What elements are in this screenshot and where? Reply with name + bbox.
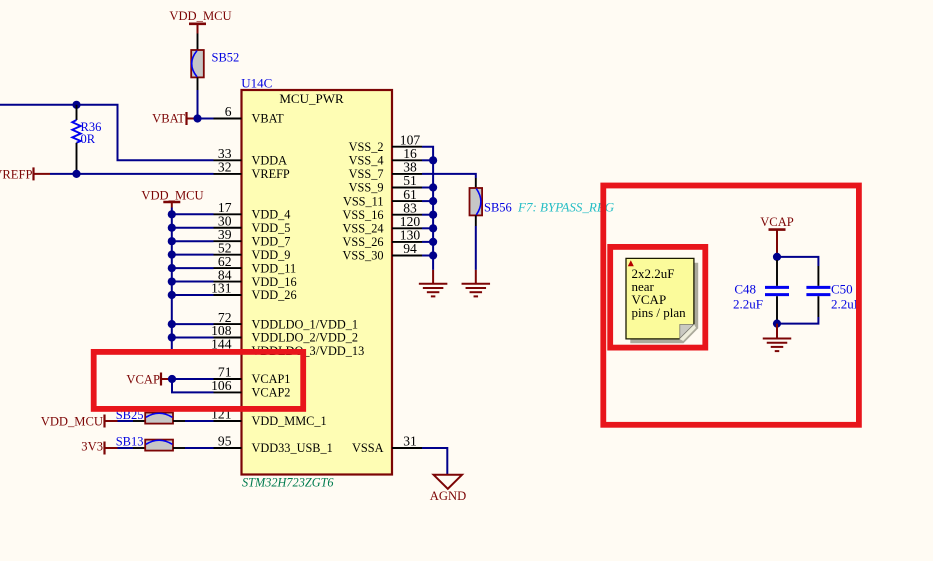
power flag VDD_MCU (top): [169, 9, 231, 34]
wire VSS_16 to bus: [422, 214, 433, 216]
note marker triangle: [628, 260, 634, 266]
svg-text:VSS_30: VSS_30: [342, 249, 383, 263]
pin VREFP (32): [214, 160, 290, 182]
node VREFP/R36 junction: [72, 170, 80, 178]
solder bridge SB56: [470, 178, 483, 226]
node VCAP junction: [168, 375, 176, 383]
wire VDD bus to pin row y=254.65: [172, 254, 214, 256]
svg-text:VDD_MMC_1: VDD_MMC_1: [252, 414, 327, 428]
svg-text:STM32H723ZGT6: STM32H723ZGT6: [242, 476, 334, 490]
wire SB25 to pin 121: [185, 420, 214, 422]
capacitor C50: [806, 266, 830, 317]
svg-text:VREFP: VREFP: [0, 167, 33, 181]
note text: [632, 266, 687, 320]
node VDD bus junction y=324.1: [168, 320, 176, 328]
node VSS_30 junction: [429, 251, 437, 259]
svg-text:VDD_5: VDD_5: [252, 221, 291, 235]
wire SB56 to ground: [475, 226, 477, 270]
pin VCAP1 (71): [214, 365, 291, 387]
svg-text:VSS_2: VSS_2: [349, 140, 384, 154]
port VBAT: [152, 112, 197, 126]
svg-text:VDD_MCU: VDD_MCU: [169, 9, 231, 23]
svg-text:VDD_MCU: VDD_MCU: [41, 414, 103, 428]
svg-text:U14C: U14C: [241, 76, 272, 91]
svg-text:VSS_26: VSS_26: [342, 235, 383, 249]
highlight box VCAP pins: [94, 352, 304, 409]
wire VDD bus to pin row y=227.75: [172, 227, 214, 229]
svg-text:pins / plan: pins / plan: [632, 305, 687, 320]
wire VDD bus to pin row y=214.3: [172, 213, 214, 215]
svg-text:VCAP: VCAP: [126, 372, 160, 386]
wire VSS_7 to SB56: [422, 174, 476, 178]
svg-text:VDD33_USB_1: VDD33_USB_1: [252, 441, 333, 455]
wire VDD bus to pin 144: [172, 350, 214, 352]
pin VSS_11 (61): [343, 187, 422, 209]
pin VDDLDO_1/VDD_1 (72): [214, 310, 359, 332]
svg-text:32: 32: [218, 160, 232, 175]
pin VBAT (6): [214, 104, 285, 126]
wire VDD bus to pin row y=295.0: [172, 294, 214, 296]
pin VSS_30 (94): [342, 241, 422, 263]
svg-text:VDD_MCU: VDD_MCU: [141, 188, 203, 202]
wire VDD_MCU to SB25: [118, 420, 134, 422]
svg-text:VBAT: VBAT: [252, 112, 285, 126]
svg-text:VDD_16: VDD_16: [252, 275, 297, 289]
svg-text:VDD_11: VDD_11: [252, 261, 297, 275]
svg-text:VSS_16: VSS_16: [342, 208, 383, 222]
wire VDD bus to pin row y=241.2: [172, 240, 214, 242]
wire rail to VDDA pin 33: [77, 105, 214, 161]
svg-text:VDD_7: VDD_7: [252, 234, 291, 248]
wire VDD bus vertical: [171, 208, 173, 351]
svg-text:VDDLDO_2/VDD_2: VDDLDO_2/VDD_2: [252, 331, 359, 345]
wire SB13 to pin 95: [185, 447, 214, 449]
svg-text:VSS_4: VSS_4: [349, 154, 384, 168]
wire VSS_24 to bus: [422, 227, 433, 229]
wire VBAT node to pin 6: [198, 118, 214, 120]
wire top to C50: [777, 257, 818, 266]
node VDD bus junction y=268.1: [168, 264, 176, 272]
svg-text:VDDLDO_1/VDD_1: VDDLDO_1/VDD_1: [252, 317, 359, 331]
svg-text:AGND: AGND: [430, 489, 466, 503]
wire VDD bus to pin row y=268.1: [172, 267, 214, 269]
ground AGND: [434, 475, 462, 489]
svg-text:C50: C50: [831, 281, 853, 296]
ground SB56: [462, 283, 491, 285]
pin VDDLDO_2/VDD_2 (108): [211, 323, 358, 345]
svg-text:VDD_9: VDD_9: [252, 248, 291, 262]
wire VSS bus to ground: [432, 270, 434, 284]
svg-text:VSS_11: VSS_11: [343, 194, 384, 208]
solder bridge SB25: [133, 413, 185, 424]
solder bridge SB52: [191, 34, 204, 91]
node VDD bus junction y=295.0: [168, 291, 176, 299]
node rail/R36 junction: [72, 101, 80, 109]
svg-text:VDDA: VDDA: [252, 154, 288, 168]
node VDD bus junction y=281.55: [168, 277, 176, 285]
node VSS_16 junction: [429, 211, 437, 219]
pin VDD_9 (52): [214, 240, 291, 262]
pin VDD_7 (39): [214, 227, 291, 249]
wire VSS_30 to bus: [422, 255, 433, 257]
wire VSS bus: [422, 147, 433, 270]
ground VCAP: [763, 338, 792, 340]
solder bridge SB13: [133, 440, 185, 451]
svg-text:VCAP1: VCAP1: [252, 372, 291, 386]
node VDD bus junction y=241.2: [168, 237, 176, 245]
svg-text:SB56: SB56: [484, 201, 512, 215]
pin VDDA (33): [214, 146, 288, 168]
svg-text:F7: BYPASS_REG: F7: BYPASS_REG: [517, 200, 615, 215]
wire VDD bus to pin row y=324.1: [172, 323, 214, 325]
wire 3V3 to SB13: [118, 447, 134, 449]
svg-text:106: 106: [211, 378, 232, 393]
wire C50 bottom to node: [777, 317, 818, 324]
power flag VCAP: [760, 215, 794, 253]
node VSS_26 junction: [429, 238, 437, 246]
svg-text:VSS_9: VSS_9: [349, 181, 384, 195]
svg-text:VCAP: VCAP: [760, 215, 794, 229]
wire left rail into sheet: [0, 104, 77, 106]
note fold rim: [679, 324, 696, 341]
pin VSS_26 (130): [342, 228, 422, 250]
node VDD bus junction y=254.65: [168, 251, 176, 259]
node VSS_9 junction: [429, 183, 437, 191]
wire VSSA to AGND: [422, 448, 447, 475]
svg-text:VDD_4: VDD_4: [252, 208, 291, 222]
svg-text:MCU_PWR: MCU_PWR: [279, 91, 344, 106]
svg-text:VDD_26: VDD_26: [252, 288, 297, 302]
node VSS_24 junction: [429, 224, 437, 232]
note fold corner: [680, 325, 694, 339]
svg-text:VREFP: VREFP: [252, 167, 290, 181]
power flag VDD_MCU (VDD bus): [141, 188, 203, 207]
node VBAT junction: [193, 114, 201, 122]
svg-text:3V3: 3V3: [81, 440, 103, 454]
wire VCAP to pin 106: [172, 379, 214, 392]
wire VDD bus to pin row y=281.55: [172, 281, 214, 283]
wire VSS_26 to bus: [422, 241, 433, 243]
pin VDDLDO_3/VDD_13 (144): [211, 337, 364, 359]
note shadow: [630, 263, 698, 344]
svg-text:VCAP2: VCAP2: [252, 386, 291, 400]
node VSS_4 junction: [429, 156, 437, 164]
pin VSS_24 (120): [342, 214, 422, 236]
wire VSS_11 to bus: [422, 200, 433, 202]
pin VSSA (31): [352, 434, 422, 456]
svg-text:VSS_24: VSS_24: [342, 222, 383, 236]
svg-text:SB52: SB52: [212, 51, 240, 65]
svg-text:0R: 0R: [81, 132, 96, 146]
pin VSS_7 (38): [349, 160, 422, 182]
pin VSS_16 (83): [342, 200, 422, 222]
pin VDD_26 (131): [211, 281, 296, 303]
svg-text:VSS_7: VSS_7: [349, 167, 384, 181]
svg-text:31: 31: [403, 434, 417, 449]
wire VREFP to pin 32: [50, 173, 214, 175]
pin VSS_4 (16): [349, 146, 422, 168]
node VCAP bottom junction: [773, 320, 781, 328]
svg-text:95: 95: [218, 434, 232, 449]
note 2x2.2uF near VCAP pins/plan: [626, 258, 694, 339]
port VDD_MCU (SB25): [41, 414, 118, 428]
svg-text:2.2uF: 2.2uF: [733, 297, 763, 312]
wire bottom node to ground: [776, 324, 778, 339]
pin VSS_2 (107): [349, 132, 422, 154]
svg-text:131: 131: [211, 281, 231, 296]
highlight box right area: [603, 186, 859, 425]
wire VDD bus to pin row y=337.5: [172, 337, 214, 339]
wire VSS_9 to bus: [422, 187, 433, 189]
pin VDD_4 (17): [214, 200, 291, 222]
node VSS_11 junction: [429, 197, 437, 205]
pin VCAP2 (106): [211, 378, 290, 400]
pin VDD_5 (30): [214, 213, 291, 235]
node VCAP top junction: [773, 253, 781, 261]
port 3V3: [81, 440, 117, 455]
port VCAP: [126, 372, 172, 386]
pin VSS_9 (51): [349, 173, 422, 195]
pin VDD_11 (62): [214, 254, 297, 276]
node VDD bus junction y=337.5: [168, 333, 176, 341]
capacitor C48: [765, 260, 789, 321]
pin VDD33_USB_1 (95): [214, 434, 333, 456]
node VDD bus junction y=214.3: [168, 210, 176, 218]
pin VDD_16 (84): [214, 267, 297, 289]
wire VSS_4 to bus: [422, 159, 433, 161]
ground VSS bus: [419, 283, 448, 285]
wire SB52 to VBAT node: [197, 90, 199, 119]
svg-text:VBAT: VBAT: [152, 112, 185, 126]
svg-text:VSSA: VSSA: [352, 441, 384, 455]
svg-text:94: 94: [403, 241, 417, 256]
svg-text:SB13: SB13: [116, 434, 144, 448]
svg-text:C48: C48: [734, 281, 756, 296]
port VREFP: [0, 167, 50, 181]
resistor R36: [72, 105, 80, 174]
highlight box note: [610, 247, 705, 348]
pin VDD_MMC_1 (121): [211, 407, 327, 429]
node VDD bus junction y=227.75: [168, 224, 176, 232]
svg-text:6: 6: [225, 104, 232, 119]
IC U14C MCU_PWR body: [242, 90, 393, 475]
wire VCAP to pin 71: [172, 378, 214, 380]
